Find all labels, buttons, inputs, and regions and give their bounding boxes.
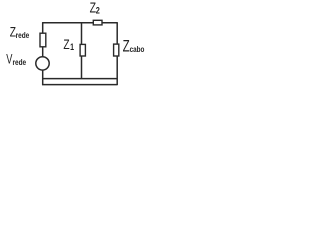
source Vrede (circle)	[36, 57, 49, 70]
wire: bottom lower rail	[42, 84, 118, 86]
svg-text:1: 1	[70, 42, 74, 52]
svg-text:Z: Z	[63, 36, 70, 52]
wire: right vertical branch (Zcabo)	[116, 22, 118, 85]
svg-text:rede: rede	[13, 59, 27, 68]
background	[0, 0, 150, 88]
wire: top rail	[43, 22, 118, 24]
wire: middle vertical branch (Z1)	[81, 22, 83, 78]
svg-text:rede: rede	[16, 31, 30, 40]
impedance Zcabo (box)	[114, 44, 119, 56]
wire: bottom upper rail	[43, 78, 118, 80]
svg-text:Z: Z	[123, 38, 130, 57]
impedance Zrede (box)	[40, 33, 46, 47]
svg-text:V: V	[6, 52, 12, 67]
wire: left vertical branch	[42, 22, 44, 85]
impedance Z2 (box)	[93, 20, 102, 25]
svg-text:2: 2	[96, 5, 100, 16]
svg-text:cabo: cabo	[130, 44, 145, 54]
impedance Z1 (box)	[80, 44, 85, 56]
